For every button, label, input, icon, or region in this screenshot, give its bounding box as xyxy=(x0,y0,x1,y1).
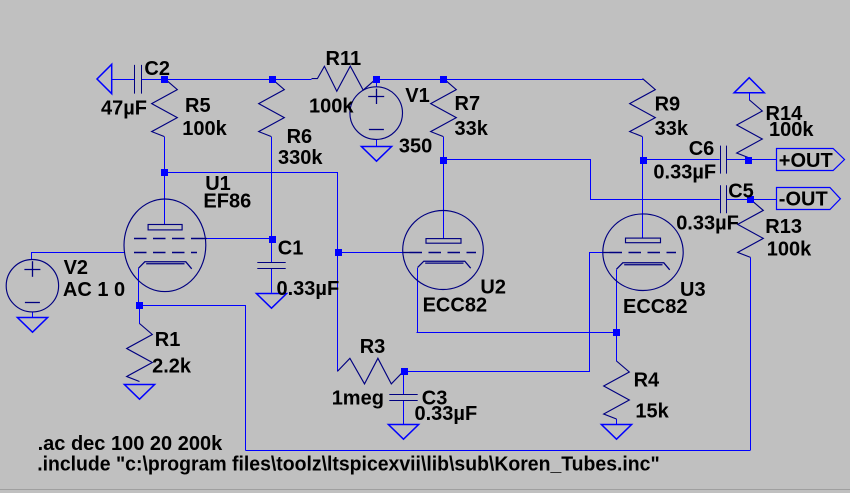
rail marker above R14 xyxy=(734,78,764,93)
resistor R5 xyxy=(152,79,178,137)
wire U3 plate row to C6 xyxy=(642,159,720,161)
svg-text:-OUT: -OUT xyxy=(779,189,828,211)
ground below V2 xyxy=(17,318,47,333)
wire U3 plate lead xyxy=(642,159,644,238)
svg-text:R4: R4 xyxy=(634,370,660,392)
svg-text:R9: R9 xyxy=(655,94,681,116)
wire feedback down xyxy=(245,305,247,450)
svg-text:0.33µF: 0.33µF xyxy=(277,278,340,300)
wire V1 top stub xyxy=(376,79,378,87)
wire V1 bottom stub xyxy=(376,139,378,146)
svg-text:R6: R6 xyxy=(287,126,313,148)
svg-text:R1: R1 xyxy=(155,329,181,351)
svg-text:.include "c:\program files\too: .include "c:\program files\toolz\ltspice… xyxy=(37,454,660,476)
junction EF86 cathode/R1 xyxy=(136,302,143,309)
wire top rail C2-R11 xyxy=(164,79,312,81)
junction V1/R11 xyxy=(373,76,380,83)
svg-text:EF86: EF86 xyxy=(203,190,251,212)
port +OUT xyxy=(777,149,845,171)
svg-text:C6: C6 xyxy=(689,138,715,160)
voltage source V2 xyxy=(6,260,58,312)
wire U3 cathode lead xyxy=(616,270,618,333)
svg-text:100k: 100k xyxy=(767,239,812,261)
wire R14 top stub xyxy=(749,93,751,101)
resistor R9 xyxy=(630,79,656,137)
junction U2 plate/R7 xyxy=(440,157,447,164)
wire U3 grid down xyxy=(589,252,591,372)
ground below C3 xyxy=(388,425,418,440)
svg-text:.ac dec 100 20 200k: .ac dec 100 20 200k xyxy=(38,433,223,455)
svg-text:33k: 33k xyxy=(655,118,689,140)
wire down to -OUT row xyxy=(590,159,592,200)
ground below R4 xyxy=(601,425,631,440)
capacitor C3 xyxy=(389,394,417,396)
wire U2 cathode lead xyxy=(417,268,419,332)
wire C6 to +OUT xyxy=(727,159,777,161)
svg-text:2.2k: 2.2k xyxy=(152,356,192,378)
svg-text:0.33µF: 0.33µF xyxy=(653,161,716,183)
svg-text:0.33µF: 0.33µF xyxy=(676,212,739,234)
wire V2 to EF86 grid xyxy=(31,252,124,254)
ground below V1 xyxy=(361,147,391,162)
svg-text:47µF: 47µF xyxy=(101,97,147,119)
svg-text:R13: R13 xyxy=(765,216,802,238)
resistor R1 xyxy=(127,324,153,382)
wire C3 top lead xyxy=(403,371,405,394)
svg-text:100k: 100k xyxy=(309,95,354,117)
wire EF86 screen to C1 node xyxy=(206,238,272,240)
junction R7 top xyxy=(440,76,447,83)
resistor R4 xyxy=(604,361,630,419)
wire EF86 cathode lead xyxy=(138,268,140,306)
svg-text:330k: 330k xyxy=(278,147,323,169)
capacitor C6 xyxy=(720,146,722,174)
svg-text:ECC82: ECC82 xyxy=(623,296,687,318)
wire C2 to node N001 xyxy=(141,79,164,81)
svg-text:ECC82: ECC82 xyxy=(423,295,487,317)
resistor R13 xyxy=(738,199,764,257)
svg-text:C2: C2 xyxy=(144,58,170,80)
wire U2 plate row right xyxy=(443,159,591,161)
svg-text:R11: R11 xyxy=(326,48,362,70)
wire input arrow to C2 xyxy=(112,79,135,81)
svg-text:R3: R3 xyxy=(360,336,386,358)
wire feedback bottom xyxy=(245,450,750,452)
wire V2 top stub xyxy=(31,252,33,260)
wire R5 bottom and EF86 plate lead xyxy=(164,137,166,225)
capacitor C1 xyxy=(257,262,285,264)
svg-text:1meg: 1meg xyxy=(332,387,384,409)
input port arrow at C2 xyxy=(97,64,112,93)
wire R6 bottom to C1 node xyxy=(271,137,273,239)
voltage source V1 xyxy=(350,87,403,140)
wire C1 bottom lead xyxy=(271,268,273,293)
wire cathode row to feedback xyxy=(138,305,246,307)
junction R3/C3 xyxy=(401,368,408,375)
wire R7 bottom lead xyxy=(443,137,445,160)
svg-text:C5: C5 xyxy=(728,181,754,203)
wire R4 bottom stub xyxy=(616,419,618,424)
wire R1 top lead xyxy=(139,305,141,323)
svg-text:15k: 15k xyxy=(635,401,669,423)
junction U3 cathode/R4 xyxy=(613,329,620,336)
wire R4 top lead xyxy=(616,332,618,361)
capacitor C5 xyxy=(720,185,722,213)
tube U3 ECC82 triode xyxy=(603,214,683,291)
svg-text:V2: V2 xyxy=(64,257,88,279)
svg-text:100k: 100k xyxy=(769,119,814,141)
wire vertical to U2 grid row xyxy=(337,172,339,371)
wire feedback up to R13 xyxy=(750,258,752,451)
wire plate row right xyxy=(164,172,338,174)
wire -OUT row to C5 xyxy=(590,199,720,201)
wire U2 grid xyxy=(337,252,403,254)
resistor R14 xyxy=(737,100,763,158)
wire top rail R7-R9 xyxy=(443,79,643,81)
svg-text:100k: 100k xyxy=(182,118,227,140)
ground below R1 xyxy=(124,385,154,400)
svg-text:AC 1 0: AC 1 0 xyxy=(63,279,125,301)
wire C3 bottom lead xyxy=(403,401,405,424)
svg-text:33k: 33k xyxy=(455,118,489,140)
resistor R3 xyxy=(337,358,403,384)
wire V2 bottom stub xyxy=(32,312,34,318)
svg-text:C1: C1 xyxy=(278,238,304,260)
svg-text:R5: R5 xyxy=(185,95,211,117)
wire C5 to -OUT xyxy=(727,199,777,201)
wire R9 bottom lead xyxy=(642,137,644,160)
svg-text:+OUT: +OUT xyxy=(779,150,833,172)
junction C5/R13/-OUT xyxy=(747,196,754,203)
junction U2 grid column xyxy=(335,249,342,256)
tube U1 EF86 pentode xyxy=(124,199,206,292)
wire grid row to C3 node xyxy=(403,371,590,373)
junction EF86 plate/R5 xyxy=(161,169,168,176)
port -OUT xyxy=(777,188,841,210)
capacitor C2 xyxy=(134,65,136,94)
junction N001 C2/R5 xyxy=(161,76,168,83)
wire top rail V1-R7 xyxy=(376,79,444,81)
svg-text:R7: R7 xyxy=(455,93,481,115)
ground below C1 xyxy=(256,294,286,309)
resistor R7 xyxy=(431,79,457,137)
tube U2 ECC82 triode xyxy=(403,211,484,290)
junction R6/R11 xyxy=(269,76,276,83)
resistor R6 xyxy=(259,79,285,137)
junction U3 plate/R9 xyxy=(640,157,647,164)
window bottom border xyxy=(0,489,850,491)
junction C6/R14/+OUT xyxy=(745,157,752,164)
svg-text:350: 350 xyxy=(399,135,432,157)
wire U2 plate lead xyxy=(443,159,445,239)
wire cathode row U2-U3 xyxy=(417,332,617,334)
resistor R11 xyxy=(312,66,377,91)
wire C1 top lead xyxy=(271,239,273,263)
svg-text:V1: V1 xyxy=(405,85,429,107)
svg-text:0.33µF: 0.33µF xyxy=(415,403,478,425)
wire U3 grid xyxy=(589,252,603,254)
junction C1/R6/screen xyxy=(269,236,276,243)
